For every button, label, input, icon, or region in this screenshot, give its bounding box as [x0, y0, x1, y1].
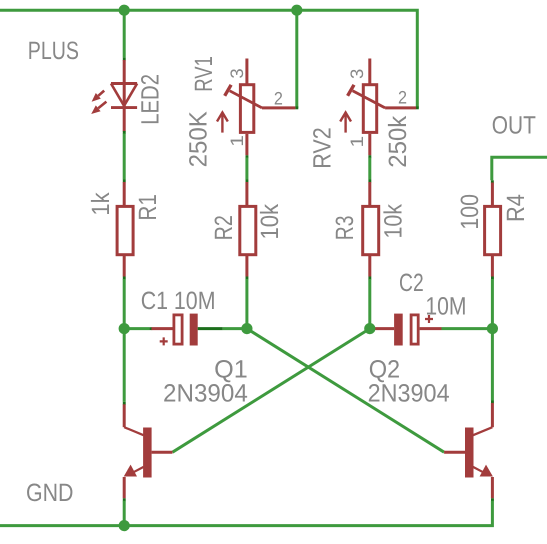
- trimmer RV1: [217, 59, 295, 156]
- svg-text:1: 1: [227, 135, 247, 147]
- resistor R2: [240, 206, 256, 254]
- resistor R3: [363, 206, 379, 254]
- svg-text:3: 3: [227, 68, 247, 78]
- node C junction: [364, 323, 375, 334]
- svg-text:10k: 10k: [380, 204, 408, 239]
- wire RV2 to R3: [368, 155, 371, 158]
- wire node A to Q1 collector: [123, 329, 126, 402]
- wire PLUS to LED2 anode: [123, 10, 126, 57]
- resistor R4: [485, 206, 501, 254]
- svg-text:RV1: RV1: [190, 56, 218, 92]
- svg-text:10k: 10k: [256, 203, 284, 239]
- svg-text:C1 10M: C1 10M: [141, 287, 216, 315]
- LED2: [91, 60, 137, 132]
- wire LED2 to R1: [123, 131, 126, 134]
- node GND junction: [119, 520, 130, 531]
- svg-text:3: 3: [347, 69, 367, 79]
- svg-text:2N3904: 2N3904: [368, 380, 450, 408]
- wire cross net C to Q1 base: [173, 329, 370, 453]
- wire cross net B to Q2 base: [247, 329, 444, 453]
- svg-text:10M: 10M: [425, 293, 466, 321]
- transistor Q1: [124, 427, 173, 477]
- svg-text:GND: GND: [26, 479, 74, 507]
- capacitor C1: [124, 327, 149, 330]
- capacitor C2: [371, 327, 394, 330]
- wire R2 to node B: [245, 256, 248, 277]
- svg-text:OUT: OUT: [492, 111, 536, 139]
- node B junction: [241, 323, 252, 334]
- wire Q1 emitter to GND: [123, 477, 126, 498]
- wire R4 to node D: [491, 256, 494, 277]
- svg-text:100: 100: [456, 194, 484, 230]
- wire R3 to node C: [368, 256, 371, 277]
- svg-text:2N3904: 2N3904: [163, 380, 248, 408]
- svg-text:R1: R1: [134, 194, 162, 221]
- resistor R1: [117, 206, 133, 254]
- wire R1 to node A: [123, 256, 126, 277]
- wire riser to RV1 pin2: [295, 10, 298, 108]
- svg-text:2: 2: [398, 88, 407, 108]
- plus sign C1: [160, 337, 168, 345]
- node PLUS junction B: [291, 5, 302, 16]
- node D junction: [487, 323, 498, 334]
- transistor Q2: [444, 427, 493, 477]
- wire GND rail: [0, 501, 492, 526]
- svg-text:RV2: RV2: [308, 127, 336, 169]
- node A junction: [119, 323, 130, 334]
- svg-text:1k: 1k: [87, 192, 115, 216]
- svg-text:C2: C2: [399, 269, 424, 297]
- svg-text:LED2: LED2: [136, 74, 164, 125]
- svg-text:250k: 250k: [384, 115, 412, 167]
- node PLUS junction A: [119, 5, 130, 16]
- wire Q2 emitter to GND: [491, 477, 494, 498]
- svg-text:R3: R3: [331, 216, 359, 241]
- svg-text:R4: R4: [502, 194, 530, 222]
- plus sign C2: [425, 315, 433, 323]
- svg-text:1: 1: [347, 136, 367, 148]
- svg-text:250K: 250K: [184, 111, 212, 168]
- svg-text:PLUS: PLUS: [28, 37, 79, 65]
- svg-text:2: 2: [274, 88, 283, 108]
- trimmer RV2: [340, 59, 416, 156]
- svg-text:R2: R2: [210, 215, 238, 240]
- wire PLUS top rail: [0, 10, 417, 108]
- wire OUT: [492, 157, 547, 180]
- wire RV1 to R2: [246, 155, 249, 158]
- wire node D to Q2 collector: [491, 329, 494, 401]
